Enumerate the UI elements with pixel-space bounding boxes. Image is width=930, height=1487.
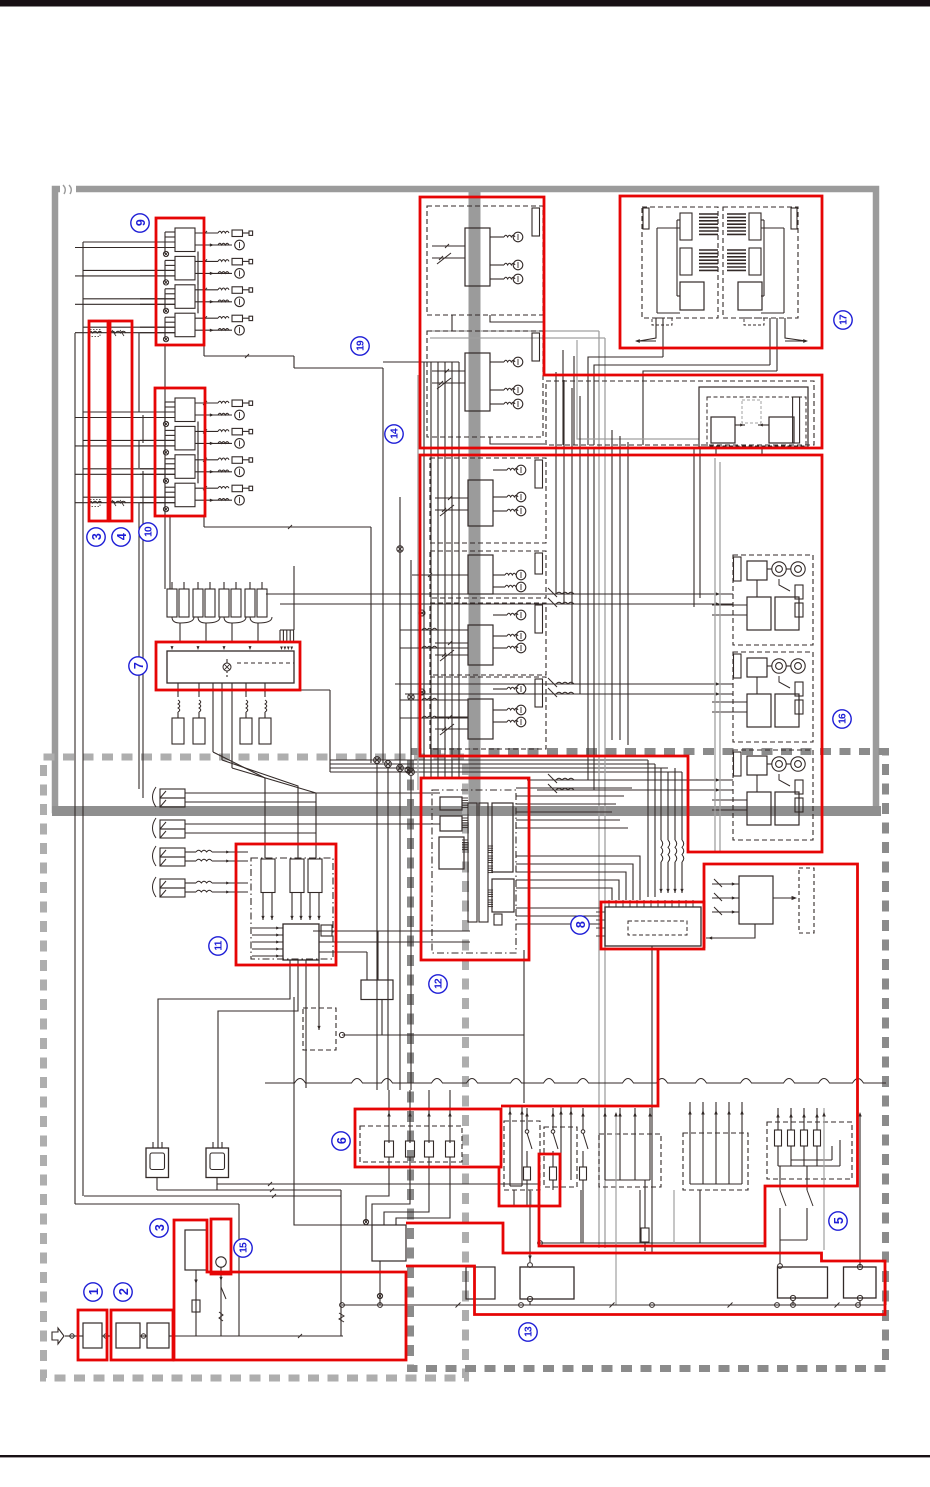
group link wires 14: [452, 315, 545, 444]
svg-text:5: 5: [832, 1217, 846, 1224]
svg-text:19: 19: [355, 340, 366, 351]
switch group B (4 switches with coils): [153, 846, 249, 897]
relay bank feed horizontals upper: [75, 242, 175, 333]
callout number 17: [834, 311, 852, 329]
wire from bank 10 down: [204, 516, 371, 763]
svg-text:12: 12: [433, 978, 444, 989]
flasher relay group R2: [712, 652, 813, 742]
flasher relay group R3: [712, 750, 813, 840]
callout number 5: [829, 1212, 847, 1230]
wire bundle to connector block 12: [383, 362, 459, 778]
harness loom line with crossing arcs: [265, 1079, 886, 1084]
splice row (4 crossing splices): [294, 520, 682, 1090]
flasher relay group R1: [712, 555, 813, 645]
svg-text:11: 11: [213, 940, 224, 950]
dashed fuse cluster C5: [683, 1102, 748, 1190]
top page bar: [0, 0, 930, 7]
switch drops in box 13 top: [524, 1108, 766, 1267]
svg-text:7: 7: [132, 662, 146, 669]
fuse unit small (box 13): [844, 1264, 877, 1305]
starter relay unit (box 13): [520, 1267, 574, 1305]
long wire risers right: [614, 1108, 862, 1305]
callout number 7: [129, 657, 147, 675]
svg-text:1: 1: [87, 1288, 101, 1295]
wires into block 12 from right: [516, 788, 632, 828]
wire bus vertical runs top-left: [75, 242, 143, 1204]
cluster bottom drop wires: [514, 1190, 581, 1243]
dashed fuse cluster C6 (4 fuses): [767, 1108, 852, 1179]
bottom page rule: [0, 1455, 930, 1457]
main fuse components (box 2): [116, 1323, 173, 1348]
highlight box 11: [236, 844, 336, 965]
bottom feed bus (left section): [65, 1334, 343, 1338]
callout number 12: [429, 975, 447, 993]
relay unit below 11: [339, 980, 524, 1038]
display monitor 1: [146, 1142, 169, 1190]
fuse box 6 internals: [360, 1090, 462, 1180]
headlight relay group (box 14 lower): [427, 331, 543, 437]
highlight box 10: [155, 388, 205, 516]
svg-text:13: 13: [523, 1326, 534, 1337]
callout number 2: [114, 1283, 132, 1301]
callout number 6: [332, 1132, 350, 1150]
unit 11 output wires: [158, 931, 470, 1148]
svg-text:10: 10: [143, 526, 154, 537]
svg-text:14: 14: [389, 428, 400, 439]
wire bundle box16 interior: [556, 372, 628, 790]
highlight box 15: [211, 1219, 231, 1274]
fuse row (8 fuses): [167, 582, 272, 642]
wires from fuse box 6 down: [363, 1180, 450, 1225]
svg-text:2: 2: [117, 1288, 131, 1295]
sensor (box 15): [216, 1257, 226, 1336]
highlight box 7: [156, 642, 300, 690]
regulator component (box 3 bottom): [185, 1230, 207, 1336]
gray wire pair long vertical: [430, 331, 605, 1248]
tail relay group L2: [412, 551, 546, 598]
regulator unit right of 8: [706, 868, 814, 940]
svg-text:17: 17: [838, 314, 849, 325]
svg-text:16: 16: [837, 713, 848, 724]
highlight box 12: [421, 778, 529, 960]
svg-text:8: 8: [574, 921, 588, 928]
fan relay unit (box 14 lower-right): [546, 381, 814, 607]
ignition sw component (box 1): [78, 1323, 111, 1348]
wire bank10 left leg down: [169, 516, 171, 589]
highlight box 3 (wire run): [89, 321, 108, 521]
highlight box 14: [420, 197, 822, 448]
callout number 15: [234, 1239, 252, 1257]
ignition coil unit (box 17): [635, 207, 808, 371]
meter/control unit 11 internals: [251, 858, 333, 960]
gray wire vertical x418: [417, 375, 419, 790]
gray solid frame bottom thick edge: [52, 806, 881, 816]
unit U7 lower connectors: [172, 683, 271, 744]
callout number 13: [519, 1323, 537, 1341]
wire bank9 left leg down to fuse row: [164, 345, 166, 589]
highlight box 8: [601, 902, 704, 949]
callout number 11: [209, 937, 227, 955]
display monitor 2: [206, 1142, 229, 1190]
callout number 10: [139, 523, 157, 541]
highlight box 17: [620, 196, 822, 348]
relay bank unit (lower, box 10): [140, 398, 253, 512]
switch group A (4 switches): [153, 787, 441, 838]
callout number 16: [833, 710, 851, 728]
callout number 8: [571, 916, 589, 934]
svg-text:4: 4: [115, 533, 129, 540]
gray solid inner divider bar: [469, 186, 481, 814]
highlight box 9: [156, 218, 204, 345]
callout number 3: [87, 528, 105, 546]
callout number 9: [131, 214, 149, 232]
dashed standby box below 11: [303, 1004, 336, 1050]
wires box17 to fan unit: [563, 340, 777, 445]
splice joint symbols in boxes 3 and 4: [88, 330, 126, 507]
highlight box 16: [420, 455, 822, 852]
connector block 12 internals: [432, 790, 516, 953]
dashed fuse cluster C3: [599, 1108, 661, 1251]
relay bank unit (upper, box 9): [140, 228, 253, 342]
callout number 1: [84, 1283, 102, 1301]
ECU unit 8: [596, 900, 701, 1252]
relay bank feed horizontals lower: [75, 412, 175, 503]
highlight box 13: [406, 1223, 885, 1315]
highlight box 3 lower: [174, 1220, 406, 1360]
monitor output bus wires: [75, 1182, 540, 1336]
highlight box 5: [499, 864, 858, 1246]
feed wires to flasher groups: [266, 588, 733, 793]
switch drops in box 5: [778, 1166, 813, 1268]
wires block12 to unit 8: [516, 856, 640, 1103]
highlight box 6: [355, 1109, 501, 1167]
tail relay group L3: [430, 603, 546, 675]
control unit below 6: [372, 1225, 406, 1305]
svg-text:9: 9: [134, 219, 148, 226]
callout number 19: [351, 337, 369, 355]
tail relay group L4: [430, 677, 546, 749]
highlight box 2: [111, 1310, 173, 1360]
main ground bus (right section): [342, 1270, 886, 1308]
coil cluster above unit 8: [648, 760, 684, 897]
highlight box 1: [78, 1310, 107, 1360]
callout number 14: [385, 425, 403, 443]
svg-text:3: 3: [90, 533, 104, 540]
callout number 4: [112, 528, 130, 546]
gray solid group frame (engine group): [55, 189, 876, 810]
tail relay group L1: [430, 458, 546, 543]
svg-text:6: 6: [335, 1137, 349, 1144]
power inlet arrow: [52, 1328, 64, 1344]
headlight relay group (box 14 upper): [427, 206, 543, 315]
svg-text:15: 15: [238, 1242, 249, 1253]
dashed fuse cluster C2: [544, 1106, 577, 1187]
gray wires through box 16: [715, 458, 720, 852]
gray dashed group frame (light, lower-left): [44, 757, 466, 1378]
svg-text:3: 3: [153, 1224, 167, 1231]
unit U7 output wires down: [213, 683, 316, 858]
callout number 3: [150, 1219, 168, 1237]
wire riser to control unit: [294, 997, 374, 1225]
gray dashed group frame (dark, lower-right): [411, 752, 886, 1369]
frame cable gap mark: [60, 184, 76, 194]
highlight box 4 (wire run): [110, 321, 132, 521]
connector comb right of fuse row: [280, 566, 294, 650]
junction unit U7: [167, 646, 294, 683]
highlight spur to box 8: [501, 950, 658, 1106]
wire from bank 9 to harness (node 19): [204, 345, 383, 763]
battery unit (box 13): [778, 1267, 828, 1305]
left feed wires box16: [400, 497, 468, 773]
dashed fuse cluster C1: [504, 1106, 540, 1190]
relay box left of starter: [466, 1267, 495, 1299]
